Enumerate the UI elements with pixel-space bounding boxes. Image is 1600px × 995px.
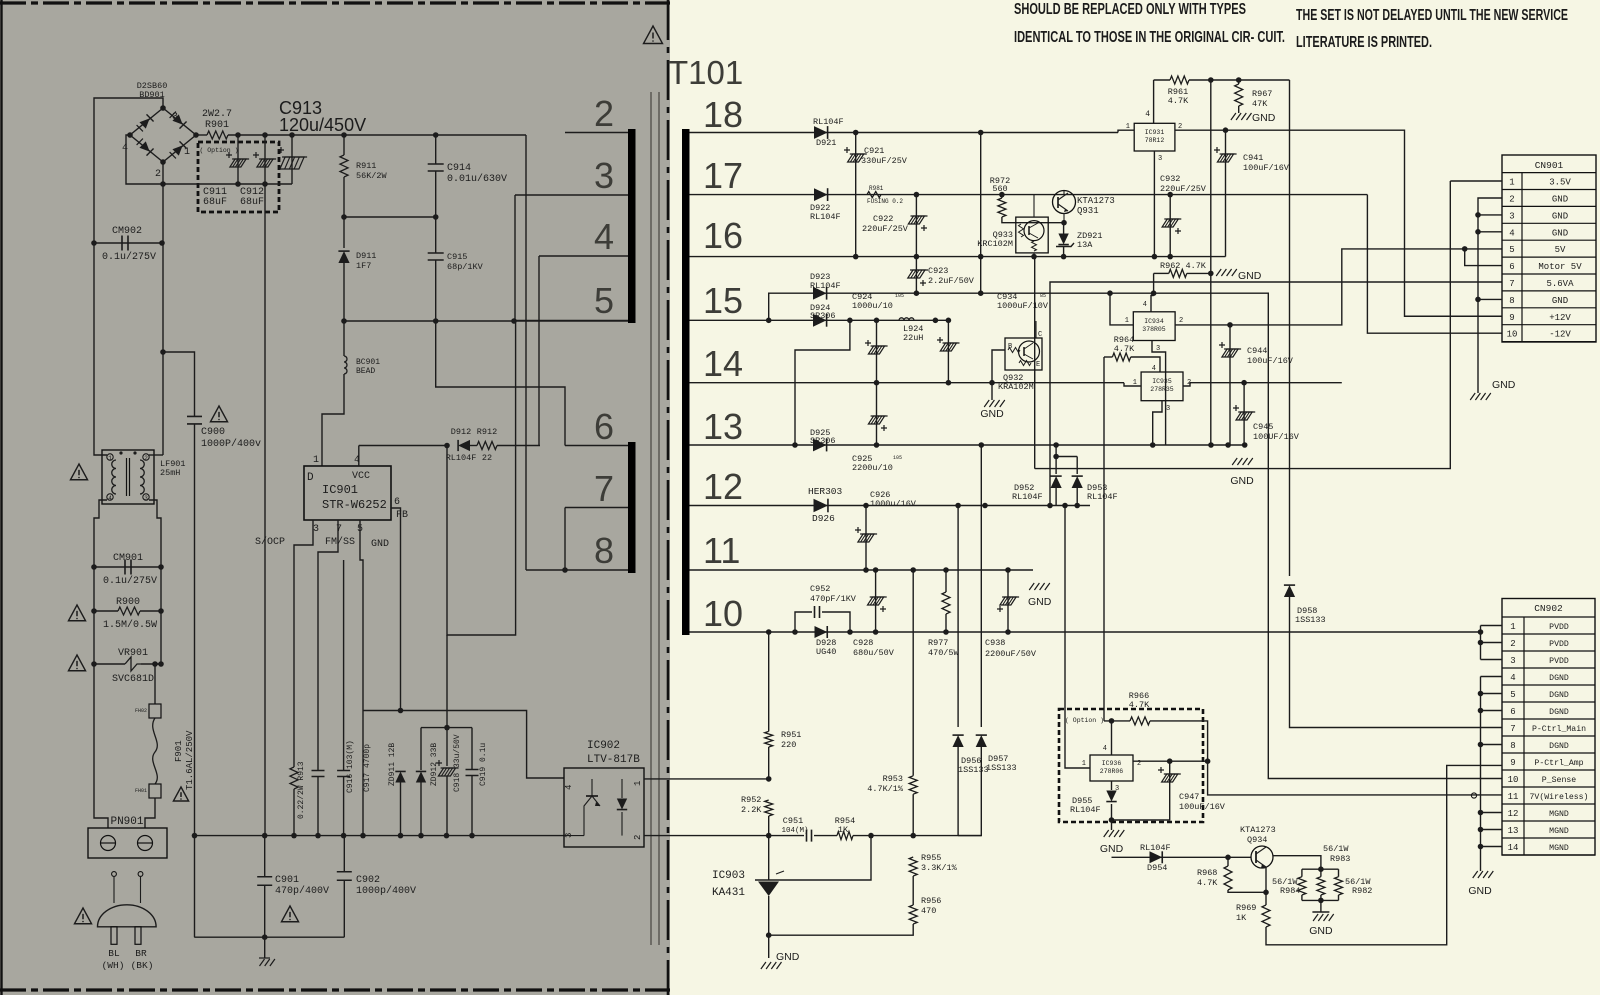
svg-text:3: 3 <box>594 155 614 196</box>
capacitor C923 <box>915 257 917 294</box>
CN902 pin 6 cell DGND <box>1502 718 1595 720</box>
connector CN902 outline <box>1502 599 1595 856</box>
IC901 STR-W6252 box <box>304 466 391 520</box>
svg-text:Motor 5V: Motor 5V <box>1538 262 1582 272</box>
wire CM901 to R900 left <box>93 567 95 611</box>
resistor R956 <box>909 905 917 924</box>
CN901 pin1 3.5V lead wire <box>1450 180 1502 182</box>
capacitor C912 <box>264 135 266 184</box>
diode D958 <box>1284 585 1295 597</box>
svg-text:7: 7 <box>1509 279 1514 289</box>
svg-text:E: E <box>1036 361 1040 369</box>
Q933 emitter resistor <box>1032 241 1037 251</box>
bridge diode top-right <box>169 111 186 128</box>
svg-text:SVC681D: SVC681D <box>112 674 154 685</box>
CN902 pin 11 cell 7V(Wireless) <box>1502 803 1595 805</box>
svg-text:6: 6 <box>1509 262 1514 272</box>
capacitor C944 <box>1229 325 1231 445</box>
node bridge top corner <box>160 105 166 111</box>
bridge diode bottom-left <box>136 138 153 155</box>
wire capacitors bottom return <box>126 135 292 184</box>
svg-text:2W2.7: 2W2.7 <box>202 109 232 120</box>
svg-text:1: 1 <box>108 455 112 462</box>
svg-text:1SS133: 1SS133 <box>1295 615 1326 625</box>
svg-text:BEAD: BEAD <box>356 367 375 376</box>
svg-text:6: 6 <box>1510 707 1515 717</box>
wire R900 to VR901 left <box>93 611 95 664</box>
IC934 pin 4 lead <box>1151 296 1154 312</box>
wire -12V drop to CN901 pin10 <box>1367 195 1502 334</box>
LF901 left winding <box>112 460 116 494</box>
svg-text:3: 3 <box>313 524 319 535</box>
CN901 pin 10 cell -12V <box>1502 341 1596 343</box>
wire LF901 out right <box>149 500 161 567</box>
wire C924 drop <box>876 320 878 445</box>
svg-text:14: 14 <box>1508 843 1519 853</box>
wire pin 4 drop to D912 line <box>538 256 540 446</box>
svg-text:1K: 1K <box>1236 913 1247 923</box>
capacitor C917 <box>343 560 345 770</box>
svg-text:DGND: DGND <box>1549 708 1569 717</box>
svg-text:2.2uF/50V: 2.2uF/50V <box>928 276 975 286</box>
CN901 pin 3 cell GND <box>1502 222 1596 224</box>
svg-text:22: 22 <box>482 453 492 463</box>
svg-text:17: 17 <box>703 155 743 196</box>
resistor R983 <box>1320 869 1322 877</box>
diode D956 <box>957 506 959 728</box>
svg-text:C919 0.1u: C919 0.1u <box>479 743 488 786</box>
capacitor C932 <box>1169 195 1171 257</box>
svg-text:CM902: CM902 <box>112 226 142 237</box>
svg-text:C922: C922 <box>873 214 893 224</box>
capacitor C915 <box>435 217 437 253</box>
shunt regulator IC903 KA431 <box>755 879 781 881</box>
svg-text:ZD912 33B: ZD912 33B <box>430 743 439 786</box>
wire pin 16 rail <box>690 256 1226 258</box>
capacitor C902 <box>343 836 345 871</box>
svg-text:1: 1 <box>313 455 319 466</box>
Q932 transistor circle <box>1019 341 1040 362</box>
svg-text:56/1W: 56/1W <box>1323 844 1349 854</box>
IC901 pin 3 S/OCP lead <box>294 520 313 767</box>
wire bridge AC input loop top <box>94 98 163 243</box>
resistor R952 <box>765 800 773 816</box>
wire Q933 switched 3.5V rail to CN901 pin1 <box>1035 181 1451 469</box>
diode D955 <box>1106 791 1116 802</box>
wire pin 3 drop <box>514 195 516 321</box>
wire VR901 right to fuse top <box>155 663 161 665</box>
svg-text:BR: BR <box>135 948 147 959</box>
svg-text:R967: R967 <box>1252 89 1272 99</box>
svg-text:-12V: -12V <box>1549 330 1571 340</box>
svg-text:T1.6AL/250V: T1.6AL/250V <box>185 730 195 790</box>
option dashed box for C911 C912 <box>198 142 279 212</box>
svg-text:RL104F: RL104F <box>1087 492 1118 502</box>
svg-text:470p/400V: 470p/400V <box>275 885 329 897</box>
svg-text:R951: R951 <box>781 730 801 740</box>
svg-text:R968: R968 <box>1197 868 1217 878</box>
svg-text:IC934: IC934 <box>1144 318 1164 325</box>
CN902 pin 14 cell MGND <box>1502 854 1595 856</box>
svg-text:+12V: +12V <box>1549 313 1571 323</box>
diode D924 <box>813 314 827 327</box>
svg-text:RL104F: RL104F <box>810 281 841 291</box>
svg-text:105: 105 <box>893 455 902 461</box>
IC931 pin 2 lead +12V line <box>1175 130 1502 316</box>
resistor R954 <box>814 835 837 837</box>
svg-text:4.7K/1%: 4.7K/1% <box>867 784 904 794</box>
svg-text:1: 1 <box>1510 622 1515 632</box>
warning triangle left of R900 <box>68 605 85 621</box>
svg-text:5: 5 <box>1509 245 1514 255</box>
svg-text:1: 1 <box>184 147 190 158</box>
warning triangle below C901 <box>281 906 298 922</box>
CN901 pin 7 cell 5.6VA <box>1502 290 1596 292</box>
svg-text:105: 105 <box>895 293 904 299</box>
wire pin 8 stub <box>526 569 628 571</box>
PN901 socket right <box>138 836 153 851</box>
transformer secondary winding bar <box>682 129 690 635</box>
svg-text:1000p/400V: 1000p/400V <box>356 885 416 897</box>
wire ZD912 C918 C919 top bracket <box>421 727 472 729</box>
svg-text:R982: R982 <box>1352 886 1372 896</box>
svg-text:SHOULD BE REPLACED ONLY WITH T: SHOULD BE REPLACED ONLY WITH TYPES <box>1014 1 1246 18</box>
ground stub below pin 14 rail <box>991 383 993 400</box>
IC931 pin 3 lead <box>1153 151 1155 257</box>
svg-text:1: 1 <box>1082 760 1086 768</box>
CN902 pin 8 cell DGND <box>1502 752 1595 754</box>
CN901 pin 9 cell +12V <box>1502 324 1596 326</box>
wire pin 18 rail <box>690 132 1119 134</box>
wire D912 node drop to C918 bracket <box>446 635 448 728</box>
diode D953 <box>1076 457 1078 475</box>
resistor bracket bottom <box>1302 899 1339 901</box>
capacitor C901 <box>264 836 266 876</box>
resistor R977 <box>945 570 947 592</box>
svg-text:C923: C923 <box>928 266 948 276</box>
gray panel bottom dash-dot border <box>0 988 670 991</box>
LF901 winding dots <box>119 451 122 454</box>
transformer primary winding bar pins 2-5 <box>628 129 636 323</box>
wire CM901 to R900 right <box>160 567 162 611</box>
CN902 pin 12 cell MGND <box>1502 820 1595 822</box>
svg-text:7V(Wireless): 7V(Wireless) <box>1530 792 1589 802</box>
svg-text:1: 1 <box>1125 317 1129 325</box>
connector PN901 box <box>88 828 167 858</box>
svg-text:PN901: PN901 <box>110 816 143 828</box>
svg-text:1K: 1K <box>838 825 849 835</box>
svg-text:0.22/2W R913: 0.22/2W R913 <box>297 761 306 819</box>
wire drain node rail <box>344 320 628 322</box>
svg-text:7: 7 <box>1510 724 1515 734</box>
svg-text:3.5V: 3.5V <box>1549 178 1571 188</box>
svg-text:8: 8 <box>1510 741 1515 751</box>
svg-text:C952: C952 <box>810 584 830 594</box>
capacitor C925 <box>871 415 888 417</box>
svg-text:100uF/16V: 100uF/16V <box>1247 356 1294 366</box>
svg-text:C915: C915 <box>447 252 467 262</box>
svg-text:1000P/400v: 1000P/400v <box>201 438 261 450</box>
svg-text:B: B <box>1008 343 1012 351</box>
svg-text:378R05: 378R05 <box>1142 326 1166 333</box>
svg-text:BL: BL <box>108 948 120 959</box>
wire R961 node drop to D958 <box>1289 80 1291 576</box>
svg-text:13: 13 <box>1508 826 1519 836</box>
svg-text:R969: R969 <box>1236 903 1256 913</box>
svg-text:13A: 13A <box>1077 240 1093 250</box>
svg-text:5: 5 <box>1510 690 1515 700</box>
capacitor C913 <box>291 135 293 184</box>
svg-text:56K/2W: 56K/2W <box>356 171 388 181</box>
ground below CN901 GND chain <box>1470 393 1475 400</box>
wire R900 to VR901 right <box>160 611 162 664</box>
ground below R983 cluster <box>1320 900 1322 912</box>
svg-text:3: 3 <box>1166 405 1170 413</box>
svg-text:F901: F901 <box>174 740 184 762</box>
wire FH01 down to PN901 <box>145 798 155 828</box>
resistor R982 <box>1338 869 1340 877</box>
capacitor C922 <box>915 195 917 257</box>
CN902 pin 5 cell DGND <box>1502 701 1595 703</box>
svg-text:GND: GND <box>1492 379 1516 391</box>
IC902 pin 3 lead wire <box>564 835 584 837</box>
svg-text:10: 10 <box>1507 330 1518 340</box>
CN902 DGND MGND chain <box>1481 676 1503 678</box>
IC931 pin 1 lead <box>1118 130 1134 132</box>
gray panel left border <box>0 0 2 995</box>
svg-text:R911: R911 <box>356 161 376 171</box>
svg-text:3: 3 <box>172 112 178 123</box>
wire pin 13 rail <box>690 444 1245 446</box>
svg-text:GND: GND <box>371 539 389 550</box>
wire bridge to R901 <box>196 134 207 136</box>
IC936 pin 3 lead <box>1111 781 1113 790</box>
svg-text:FB: FB <box>396 510 408 521</box>
ground right of R962 <box>1216 269 1221 276</box>
svg-text:3: 3 <box>1156 345 1160 353</box>
svg-text:RL104F: RL104F <box>446 453 477 463</box>
ground below CN902 chain <box>1473 871 1478 878</box>
Q933 base resistor <box>1019 224 1024 237</box>
svg-text:( Option ): ( Option ) <box>1065 717 1104 724</box>
wire D923 upper branch <box>769 293 1154 320</box>
IC936 278R06 box <box>1090 755 1133 781</box>
capacitor C952 bypass loop <box>795 612 812 632</box>
wire snubber mid junction <box>344 216 436 218</box>
wire opto feed line <box>644 778 769 780</box>
IC901 pin 4 VCC lead <box>358 446 360 467</box>
svg-text:FM/SS: FM/SS <box>325 536 355 548</box>
svg-text:1SS133: 1SS133 <box>958 765 989 775</box>
resistor R913 <box>290 767 298 789</box>
capacitor C947 <box>1112 761 1170 820</box>
capacitor CM901 <box>125 560 131 575</box>
svg-text:470pF/1KV: 470pF/1KV <box>810 594 857 604</box>
transformer primary winding bar pins 6-8 <box>628 442 636 573</box>
svg-text:R983: R983 <box>1330 854 1350 864</box>
svg-text:R977: R977 <box>928 638 948 648</box>
svg-text:IDENTICAL TO THOSE IN THE ORIG: IDENTICAL TO THOSE IN THE ORIGINAL CIR- … <box>1014 29 1285 46</box>
capacitor C916 <box>317 768 319 770</box>
svg-text:3.3K/1%: 3.3K/1% <box>921 863 958 873</box>
svg-text:KA431: KA431 <box>712 887 745 899</box>
wire HV rail <box>228 134 526 136</box>
svg-text:6: 6 <box>594 406 614 447</box>
svg-text:IC901: IC901 <box>322 483 358 497</box>
resistor R967 <box>1238 80 1240 84</box>
CN902 pin 7 cell P-Ctrl_Main <box>1502 735 1595 737</box>
LF901 pin 3 circle <box>143 494 149 500</box>
svg-text:78R12: 78R12 <box>1145 137 1165 144</box>
ground marker at pin 11 rail end <box>1029 583 1034 590</box>
inductor L924 <box>899 318 914 321</box>
wire FB node to opto link <box>363 711 564 779</box>
zener diode ZD921 <box>1058 234 1068 245</box>
resistor R900 wire <box>94 610 118 612</box>
svg-text:VR901: VR901 <box>118 648 148 659</box>
svg-text:MGND: MGND <box>1549 810 1569 819</box>
wire pin 4 stub <box>539 255 628 257</box>
svg-text:MGND: MGND <box>1549 827 1569 836</box>
ground below R967 <box>1231 113 1236 120</box>
svg-text:2: 2 <box>1187 379 1191 387</box>
CN901 pin 1 cell 3.5V <box>1502 189 1596 191</box>
svg-text:13: 13 <box>703 406 743 447</box>
IC934 pin 2 lead 5V link <box>1175 249 1502 325</box>
svg-text:PVDD: PVDD <box>1549 657 1569 666</box>
wire R954 node to KA431 ref <box>781 836 871 880</box>
wire CN901 5V to Motor 5V link <box>1465 249 1502 266</box>
capacitor C945 <box>1243 383 1245 445</box>
wire vertical junction drop R961 node <box>1210 80 1212 445</box>
svg-text:12: 12 <box>703 466 743 507</box>
svg-text:16: 16 <box>703 215 743 256</box>
Q932 emitter lead <box>1034 370 1036 383</box>
node bridge left corner <box>127 132 133 138</box>
svg-text:22uH: 22uH <box>903 333 923 343</box>
wire opto cathode line <box>644 835 769 837</box>
svg-text:1.5M/0.5W: 1.5M/0.5W <box>103 619 157 631</box>
capacitor C928 <box>875 570 877 632</box>
wire 5.6VA riser to CN901 pin7 <box>1050 282 1502 506</box>
svg-text:1000u/16V: 1000u/16V <box>870 499 917 509</box>
svg-text:PVDD: PVDD <box>1549 640 1569 649</box>
svg-text:R900: R900 <box>116 597 140 608</box>
CN902 pin 11 circle <box>1471 793 1476 798</box>
wire 18V feed drop <box>980 133 982 294</box>
svg-text:D921: D921 <box>816 138 836 148</box>
svg-text:CN902: CN902 <box>1534 603 1563 614</box>
svg-text:C932: C932 <box>1160 174 1180 184</box>
svg-text:GND: GND <box>1552 228 1568 238</box>
IC936 pin 4 lead <box>1111 721 1113 755</box>
svg-text:GND: GND <box>1252 112 1276 124</box>
fuse F901 curvy element <box>153 718 158 784</box>
IC936 pin 1 lead <box>1065 506 1090 769</box>
bridge rectifier BD901 diamond <box>130 108 196 162</box>
svg-text:RL104F: RL104F <box>1012 492 1043 502</box>
svg-text:0.1u/275V: 0.1u/275V <box>102 251 156 263</box>
capacitor C941 <box>1225 130 1227 256</box>
svg-text:C918 33u/50V: C918 33u/50V <box>453 734 462 792</box>
IC901 pin 6 FB lead <box>391 508 401 709</box>
svg-text:68p/1KV: 68p/1KV <box>447 262 484 272</box>
svg-text:KTA1273: KTA1273 <box>1240 825 1276 835</box>
svg-text:IC902: IC902 <box>587 740 620 752</box>
svg-text:GND: GND <box>980 408 1004 420</box>
svg-text:1: 1 <box>1509 178 1514 188</box>
svg-text:IC931: IC931 <box>1145 129 1165 136</box>
svg-text:100uF/16V: 100uF/16V <box>1179 802 1226 812</box>
svg-text:68uF: 68uF <box>240 197 264 208</box>
gray panel top dash-dot border <box>0 1 670 4</box>
svg-text:8: 8 <box>594 530 614 571</box>
wire AC left into LF901 <box>94 243 107 455</box>
svg-text:R984: R984 <box>1280 886 1300 896</box>
svg-text:(WH): (WH) <box>102 960 125 971</box>
IC901 pin 5 GND lead <box>360 520 363 836</box>
wire C900 C901 C902 bottom link <box>194 936 344 938</box>
resistor R911 <box>343 135 345 155</box>
svg-text:2: 2 <box>144 455 148 462</box>
line filter LF901 box <box>102 450 154 504</box>
svg-text:STR-W6252: STR-W6252 <box>322 498 387 512</box>
svg-text:5: 5 <box>357 524 363 535</box>
svg-text:C941: C941 <box>1243 153 1263 163</box>
Q932 collector lead <box>1035 321 1037 338</box>
IC931 78R12 box <box>1134 123 1175 151</box>
diode D926 HER303 <box>814 499 828 513</box>
capacitor C934 <box>943 342 960 344</box>
wire pin 10 rail <box>690 631 1481 633</box>
svg-text:470/5W: 470/5W <box>928 648 960 658</box>
wire pin 7 stub <box>565 507 628 509</box>
svg-text:HER303: HER303 <box>808 486 843 497</box>
svg-text:4.7K: 4.7K <box>1168 96 1189 106</box>
svg-text:1SS133: 1SS133 <box>986 763 1017 773</box>
capacitor C914 <box>435 135 437 164</box>
varistor VR901 wire <box>94 663 125 665</box>
LF901 right winding <box>140 460 144 494</box>
svg-text:3: 3 <box>144 495 148 502</box>
svg-text:1000uF/10V: 1000uF/10V <box>997 301 1049 311</box>
svg-text:RL104F: RL104F <box>1140 843 1171 853</box>
wire 12V sense line to CN902 P-Sense <box>1154 293 1502 778</box>
wire pin 3 stub <box>515 194 628 196</box>
CN901 pin 4 cell GND <box>1502 239 1596 241</box>
svg-text:5: 5 <box>594 280 614 321</box>
wire VR901 left down to plug <box>94 664 108 828</box>
svg-text:2: 2 <box>633 835 643 840</box>
svg-text:Q931: Q931 <box>1077 206 1099 216</box>
node bridge bottom corner <box>160 159 166 165</box>
background gray panel (primary side) <box>0 0 670 995</box>
wire D912 node to drain rail link <box>447 321 516 635</box>
wire Q933 emitter node drop to 7V line <box>1034 257 1036 469</box>
svg-text:D954: D954 <box>1147 863 1167 873</box>
svg-text:2: 2 <box>1137 760 1141 768</box>
svg-text:2: 2 <box>1179 317 1183 325</box>
svg-text:2: 2 <box>1510 639 1515 649</box>
svg-text:4.7K: 4.7K <box>1114 344 1135 354</box>
svg-text:C947: C947 <box>1179 792 1199 802</box>
svg-text:MGND: MGND <box>1549 844 1569 853</box>
capacitor CM902 <box>122 236 128 251</box>
svg-text:C901: C901 <box>275 875 299 886</box>
wire pin 6 stub <box>565 445 628 447</box>
PN901 socket left <box>101 836 116 851</box>
svg-text:120u/450V: 120u/450V <box>279 115 366 135</box>
